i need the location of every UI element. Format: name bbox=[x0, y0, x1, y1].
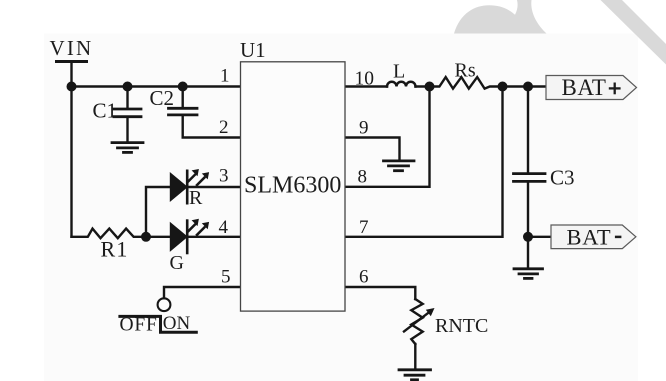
wire U1 pin 5 to switch bbox=[164, 287, 240, 298]
capacitor C3 bbox=[514, 172, 546, 175]
node BAT sense junction bbox=[498, 82, 508, 92]
svg-text:VIN: VIN bbox=[50, 36, 94, 60]
wire R1 node to LED G bbox=[146, 236, 171, 238]
svg-text:G: G bbox=[170, 252, 184, 274]
wire RNTC to ground bbox=[414, 344, 416, 368]
wire BAT+ node down to U1 pin 7 bbox=[345, 87, 503, 237]
ground below RNTC bbox=[399, 368, 431, 371]
svg-text:10: 10 bbox=[355, 68, 375, 89]
capacitor C1 bbox=[126, 87, 128, 108]
inductor L bbox=[387, 82, 416, 87]
resistor R1 bbox=[72, 229, 147, 239]
wire Rs node to BAT+ bbox=[503, 85, 547, 87]
LED R (red) bbox=[171, 175, 186, 200]
node VIN terminal bar bbox=[57, 60, 87, 63]
svg-text:C2: C2 bbox=[150, 86, 175, 110]
svg-text:5: 5 bbox=[221, 267, 231, 288]
svg-text:SLM6300: SLM6300 bbox=[244, 173, 341, 199]
svg-text:OFF: OFF bbox=[120, 314, 158, 335]
IC U1 body bbox=[241, 62, 346, 311]
svg-text:7: 7 bbox=[359, 217, 369, 238]
svg-text:Rs: Rs bbox=[455, 60, 476, 82]
wire riser from R1 node up to LED R bbox=[146, 187, 171, 237]
wire BAT- node to flag bbox=[528, 236, 551, 238]
ground below BAT- bbox=[514, 267, 543, 270]
resistor Rs bbox=[430, 77, 503, 89]
node VIN junction bbox=[67, 82, 77, 92]
svg-text:3: 3 bbox=[219, 165, 229, 186]
wire U1 pin 10 to L bbox=[345, 85, 387, 87]
svg-text:BAT: BAT bbox=[567, 224, 612, 249]
svg-text:BAT: BAT bbox=[562, 75, 607, 100]
node C2 junction bbox=[178, 82, 188, 92]
thermistor RNTC zigzag bbox=[411, 299, 422, 344]
flag BAT- bbox=[551, 224, 636, 249]
svg-text:9: 9 bbox=[359, 118, 369, 139]
node BAT+ junction bbox=[523, 82, 533, 92]
capacitor C2 bbox=[181, 87, 183, 108]
svg-text:U1: U1 bbox=[240, 38, 266, 62]
node C1 junction bbox=[123, 82, 133, 92]
node BAT- junction bbox=[523, 232, 533, 242]
wire LED R cathode to U1 pin 3 bbox=[187, 186, 240, 188]
wire L to node bbox=[416, 85, 430, 87]
wire VIN bus row1 to U1 pin 1 bbox=[72, 85, 241, 87]
wire LED G cathode to U1 pin 4 bbox=[187, 236, 240, 238]
wire U1 pin 6 to RNTC bbox=[345, 287, 415, 299]
RNTC arrow bbox=[404, 312, 430, 332]
ground below C1 bbox=[112, 141, 143, 144]
ground below pin 9 bbox=[384, 159, 415, 162]
svg-text:C3: C3 bbox=[550, 166, 575, 190]
svg-text:2: 2 bbox=[219, 117, 229, 138]
wire C2 to U1 pin 2 bbox=[183, 116, 240, 137]
svg-text:RNTC: RNTC bbox=[435, 315, 488, 337]
switch OFF/ON step line bbox=[120, 316, 196, 332]
node LED anode junction bbox=[141, 232, 151, 242]
svg-text:C1: C1 bbox=[93, 99, 118, 123]
wire BAT+ node to C3 bbox=[527, 87, 529, 173]
svg-text:4: 4 bbox=[219, 217, 229, 238]
svg-text:L: L bbox=[393, 61, 405, 83]
wire node down to U1 pin 8 bbox=[345, 87, 430, 187]
svg-text:ON: ON bbox=[163, 313, 191, 334]
wire U1 pin 9 to ground bbox=[345, 138, 400, 160]
svg-text:8: 8 bbox=[358, 167, 368, 188]
svg-text:1: 1 bbox=[220, 65, 230, 86]
svg-text:R: R bbox=[189, 187, 203, 209]
wire C3 to BAT- node bbox=[527, 183, 529, 237]
switch circle bbox=[158, 298, 171, 311]
LED G (green) bbox=[171, 224, 186, 249]
wire VIN vertical down to R1 row bbox=[70, 62, 72, 237]
node L-Rs junction bbox=[425, 82, 435, 92]
flag BAT+ bbox=[546, 75, 637, 100]
svg-text:6: 6 bbox=[359, 267, 369, 288]
wire BAT- node down to ground bbox=[527, 237, 529, 267]
svg-text:R1: R1 bbox=[101, 237, 129, 262]
